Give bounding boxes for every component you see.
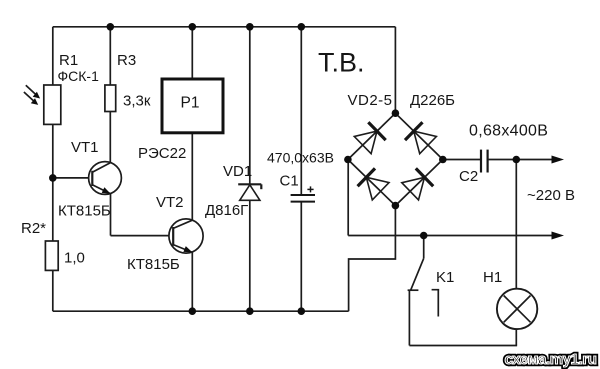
node: K1 tee on lower AC line bbox=[420, 232, 428, 240]
wire: bridge left node down to AC line bbox=[347, 160, 349, 236]
node: P1 top bbox=[189, 23, 197, 31]
wire: K1 left contact down bbox=[408, 290, 410, 345]
node: bridge right bbox=[439, 156, 447, 164]
switch K1 left contact bbox=[408, 289, 419, 291]
light arrow 2 bbox=[24, 92, 38, 105]
svg-text:VT2: VT2 bbox=[156, 194, 184, 211]
wire: bridge bottom node jog to bottom rail bbox=[349, 206, 396, 312]
svg-text:VD2-5: VD2-5 bbox=[348, 92, 393, 109]
wire: top supply rail bbox=[53, 26, 396, 28]
transistor VT2 bbox=[169, 219, 203, 253]
svg-text:КТ815Б: КТ815Б bbox=[58, 203, 111, 220]
wire: lower AC line with arrow bbox=[348, 235, 553, 237]
node: bridge left bbox=[344, 156, 352, 164]
capacitor C2 bbox=[481, 150, 488, 173]
wire: bridge right node to C2 bbox=[443, 159, 481, 161]
wire: VT1 base wire bbox=[53, 177, 92, 179]
resistor R2 body bbox=[45, 241, 58, 270]
node: C1 bottom bbox=[298, 307, 306, 315]
svg-text:Т.В.: Т.В. bbox=[318, 48, 365, 78]
node: VT1 base tee bbox=[49, 174, 57, 182]
transistor VT1 bbox=[89, 162, 122, 195]
wire: VT1 emitter to VT2 base bbox=[111, 235, 174, 237]
svg-text:VD1: VD1 bbox=[223, 163, 252, 180]
wire: P1 top lead bbox=[191, 27, 193, 79]
wire: K1 drop from AC line bbox=[423, 236, 425, 259]
wire: C1 top lead bbox=[300, 27, 302, 195]
wire: bottom rail bbox=[53, 310, 349, 312]
node: C1 top bbox=[298, 23, 306, 31]
node: lamp tee on upper AC line bbox=[513, 156, 521, 164]
wire: C1 bottom lead bbox=[300, 202, 302, 312]
wire: left vertical top segment (to R1) bbox=[52, 27, 54, 85]
svg-text:КТ815Б: КТ815Б bbox=[127, 256, 180, 273]
wire: VT1 emitter drop bbox=[110, 193, 112, 235]
relay coil P1 bbox=[162, 79, 223, 133]
bridge: diode VD5 bottom-right bbox=[395, 160, 442, 206]
svg-text:C1: C1 bbox=[280, 173, 299, 190]
bridge: diode VD3 top-right bbox=[395, 113, 442, 159]
svg-text:схема.my1.ru: схема.my1.ru bbox=[505, 351, 597, 368]
wire: C2 to upper AC arrow bbox=[488, 159, 553, 161]
svg-text:C2: C2 bbox=[459, 168, 478, 185]
switch K1 right contact bbox=[432, 290, 440, 317]
resistor R3 body bbox=[105, 85, 116, 112]
wire: VD1 bottom lead bbox=[249, 200, 251, 311]
resistor R1 photoresistor body bbox=[44, 85, 61, 124]
svg-text:РЭС22: РЭС22 bbox=[138, 145, 186, 162]
watermark схема.my1.ru bbox=[505, 351, 597, 368]
svg-text:K1: K1 bbox=[436, 269, 454, 286]
light arrow 1 bbox=[26, 85, 40, 98]
wire: lamp bottom loop bbox=[409, 345, 517, 347]
svg-text:R2*: R2* bbox=[21, 220, 46, 237]
wire: P1 bottom lead to VT2 collector bbox=[191, 133, 193, 220]
capacitor C1 bbox=[291, 186, 315, 201]
svg-text:Д226Б: Д226Б bbox=[410, 92, 455, 109]
svg-text:P1: P1 bbox=[181, 95, 200, 112]
wire: VD1 top lead bbox=[249, 27, 251, 185]
switch K1 blade bbox=[411, 258, 424, 289]
svg-text:R1: R1 bbox=[59, 52, 78, 69]
wire: lamp bottom lead bbox=[515, 329, 517, 346]
svg-text:0,68x400В: 0,68x400В bbox=[469, 123, 548, 140]
node: bridge bottom bbox=[392, 202, 400, 210]
node: VD1 bottom bbox=[246, 307, 254, 315]
wire: left vertical R2 to bottom rail bbox=[52, 270, 54, 311]
lamp H1 bbox=[497, 289, 537, 329]
node: R3 top bbox=[107, 23, 115, 31]
wire: VT2 emitter to bottom rail bbox=[191, 252, 193, 311]
node: VD1 top bbox=[246, 23, 254, 31]
wire: R3 to VT1 collector bbox=[109, 112, 111, 164]
node: VT2 emitter bottom bbox=[189, 307, 197, 315]
svg-text:~220 В: ~220 В bbox=[527, 187, 575, 204]
svg-text:Д816Г: Д816Г bbox=[205, 202, 248, 219]
wire: top rail down to bridge top node bbox=[394, 27, 396, 113]
svg-text:3,3к: 3,3к bbox=[123, 93, 151, 110]
bridge: diode VD2 top-left bbox=[348, 113, 396, 159]
wire: R3 top vertical bbox=[109, 27, 111, 85]
svg-text:Н1: Н1 bbox=[483, 269, 502, 286]
svg-text:1,0: 1,0 bbox=[64, 250, 85, 267]
svg-text:R3: R3 bbox=[117, 52, 136, 69]
zener VD1 bbox=[238, 184, 261, 200]
svg-text:470,0x63В: 470,0x63В bbox=[267, 150, 334, 166]
wire: left vertical R1 to R2 bbox=[52, 124, 54, 241]
svg-text:ФСК-1: ФСК-1 bbox=[58, 68, 100, 84]
node: bridge top bbox=[392, 109, 400, 117]
svg-text:VT1: VT1 bbox=[71, 139, 99, 156]
wire: lamp top lead bbox=[515, 160, 517, 289]
bridge: diode VD4 bottom-left bbox=[348, 160, 396, 206]
